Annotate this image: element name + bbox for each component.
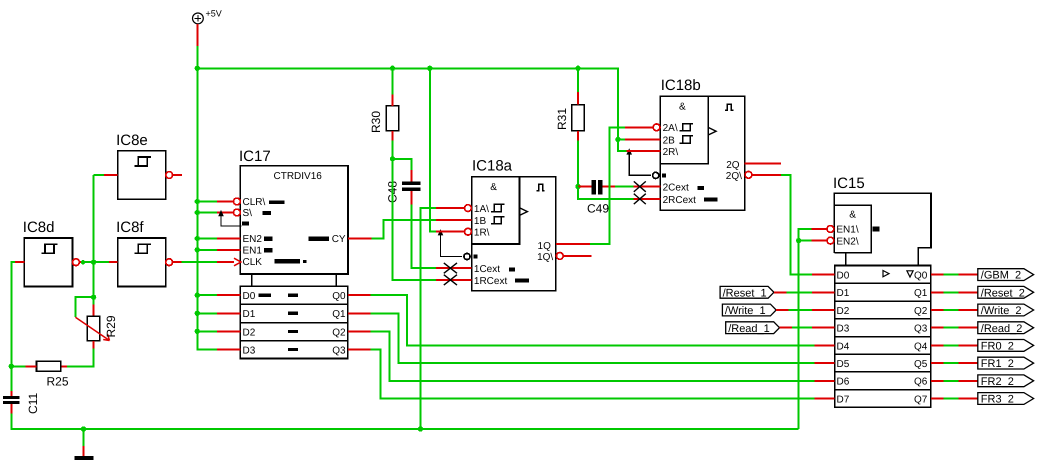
junction VCC at CLR (195, 199, 200, 204)
wire IC18b 2A pin (625, 126, 653, 128)
svg-text:D3: D3 (837, 324, 850, 335)
svg-text:Q0: Q0 (914, 271, 928, 282)
svg-text:2Cext: 2Cext (663, 183, 689, 194)
svg-text:FR0_2: FR0_2 (981, 341, 1014, 353)
svg-text:D6: D6 (837, 377, 850, 388)
svg-text:IC8f: IC8f (116, 219, 144, 236)
wire IC18b 2Q\ pin (752, 174, 781, 176)
junction VCC rail at R31 (575, 66, 580, 71)
svg-text:IC17: IC17 (239, 148, 271, 165)
op IC17 counter main box (240, 166, 348, 274)
junction IC8d output net riser (91, 260, 96, 265)
svg-text:Q6: Q6 (914, 377, 928, 388)
svg-text:Q4: Q4 (914, 341, 928, 352)
svg-text:IC15: IC15 (833, 175, 865, 192)
wire IC8f output pin (173, 261, 181, 263)
wire IC18a 1Q\ pin (open) (563, 255, 591, 257)
wire IC18a 1Cext pin (436, 267, 472, 269)
wire IC17 CY pin (348, 238, 372, 240)
junction VCC rail at R30 (390, 66, 395, 71)
svg-text:&: & (679, 102, 686, 113)
svg-text:C49: C49 (587, 202, 609, 216)
pin S pin-number bar (263, 211, 272, 215)
svg-text:Q1: Q1 (332, 309, 346, 320)
wire /Write_1 to IC15 D2 (789, 309, 812, 311)
capacitor C48 top pin (410, 170, 412, 181)
op IC18a monoflop body (472, 177, 556, 291)
svg-text:FR2_2: FR2_2 (981, 376, 1014, 388)
wire C49 right to 2Cext (615, 186, 634, 188)
svg-text:D0: D0 (243, 291, 256, 302)
wire VCC vertical from +5V down to IC17 D3 row (197, 46, 217, 350)
pin bar below S (242, 222, 249, 226)
svg-text:/GBM_2: /GBM_2 (981, 270, 1021, 282)
wire IC17 Q1 to IC15 D5 (371, 313, 815, 363)
wire IC18b 2Q\ to IC15 D0 (781, 175, 812, 275)
svg-text:FR1_2: FR1_2 (981, 358, 1014, 370)
svg-text:/Write_1: /Write_1 (725, 305, 766, 317)
pin EN1 pin-number bar (264, 248, 273, 252)
ground symbol GND (75, 456, 94, 460)
wire IC15 EN2 pin (811, 240, 827, 242)
junction ground rail at GND symbol (81, 426, 86, 431)
wire /Read_1 flag pin (780, 327, 793, 329)
wire Q4 to flag FR0_2 (944, 344, 959, 346)
wire IC18b 2Cext pin (634, 186, 661, 188)
junction R25/C11/IC8d node (9, 364, 14, 369)
svg-text:D0: D0 (837, 271, 850, 282)
svg-text:1Q\: 1Q\ (537, 252, 553, 263)
svg-text:IC18a: IC18a (472, 158, 513, 175)
no-connect X on 2RCext (634, 194, 646, 204)
pin Q0 nabla triangle (907, 271, 913, 277)
svg-text:/Read_1: /Read_1 (728, 323, 770, 335)
wire VCC top rail to IC18b then down to 2B/2R (197, 68, 626, 151)
svg-text:EN2\: EN2\ (836, 236, 858, 247)
input flag /Reset_1 (720, 286, 774, 298)
svg-text:Q0: Q0 (332, 291, 346, 302)
svg-text:Q7: Q7 (914, 394, 928, 405)
wire VCC to IC17 D3 pin (197, 349, 217, 351)
wire IC17 Q0 pin (348, 294, 371, 296)
wire IC15 Q3 pin (931, 327, 944, 329)
wire IC15 D4 pin (815, 344, 835, 346)
resistor R29 bottom pin (93, 341, 95, 349)
wire VCC to IC17 CLR pin (197, 201, 217, 203)
inverter gate IC8f (118, 238, 173, 287)
wire IC18b 2RCext pin (634, 198, 661, 200)
wire /Write_1 flag pin (776, 309, 789, 311)
wire EN2 branch (799, 240, 812, 242)
svg-text:Q5: Q5 (914, 359, 928, 370)
junction node R31/C49 (575, 184, 580, 189)
output flag /Reset_2 (978, 286, 1034, 298)
junction EN2 node (796, 238, 801, 243)
wire IC18b 2B pin (625, 138, 660, 140)
wire riser IC8e input / R29 top (93, 175, 95, 304)
svg-text:IC18b: IC18b (661, 77, 701, 94)
svg-text:1B: 1B (474, 216, 487, 227)
wire IC18a 1A pin (436, 207, 464, 209)
wire VCC drop to R31 (577, 68, 579, 92)
svg-text:D4: D4 (837, 341, 850, 352)
wire IC18a 1RCext pin (436, 279, 472, 281)
svg-text:D2: D2 (243, 327, 256, 338)
junction VCC at EN2 (195, 236, 200, 241)
gadget IC18b R-pin arrow link (629, 153, 651, 176)
wire C48 bottom down to 1Cext row (411, 205, 436, 269)
resistor R25 left pin (25, 365, 36, 367)
svg-text:EN1: EN1 (243, 246, 263, 257)
wire IC17 Q2 to IC15 D6 (371, 331, 815, 380)
output flag /GBM_2 (978, 269, 1034, 281)
pin EN2 pin-number bar (264, 237, 273, 241)
resistor R31 bottom pin (577, 131, 579, 141)
output flag /Read_2 (978, 322, 1034, 334)
wire VCC branch to IC18b 2B (618, 138, 625, 140)
svg-text:D2: D2 (837, 306, 850, 317)
wire flag FR2_2 pin (959, 380, 978, 382)
wire Q1 to flag /Reset_2 (944, 291, 959, 293)
svg-text:2Q: 2Q (726, 160, 740, 171)
svg-text:FR3_2: FR3_2 (981, 394, 1014, 406)
resistor R30 body (386, 106, 399, 131)
wire IC15 EN1 pin (811, 228, 827, 230)
gadget IC18a R-pin arrow link (441, 234, 463, 257)
wire VCC to IC17 EN2 pin (197, 238, 217, 240)
capacitor C49 plates (592, 180, 596, 194)
wire IC17 Q0 to IC15 D4 (371, 295, 815, 345)
wire VCC to IC17 S pin (197, 212, 217, 214)
input flag /Read_1 (726, 322, 780, 334)
wire IC18a 1A riser from ground rail (420, 208, 436, 429)
wire IC15 Q0 pin (931, 274, 944, 276)
svg-text:D3: D3 (243, 345, 256, 356)
wire flag FR0_2 pin (959, 344, 978, 346)
wire VCC long drop to IC18a 1R (430, 68, 436, 231)
wire IC17 Q3 pin (348, 349, 371, 351)
wire IC18b 2R pin (627, 150, 661, 152)
capacitor C48 plates (402, 181, 420, 185)
svg-text:EN1\: EN1\ (836, 225, 858, 236)
svg-text:CY: CY (332, 234, 346, 245)
wire VCC to IC17 D0 pin (197, 294, 217, 296)
wire flag /Read_2 pin (959, 327, 978, 329)
resistor R30 top pin (392, 95, 394, 106)
pin CLR pin-number bar (269, 200, 285, 204)
op IC15 latch control box (834, 193, 931, 265)
ground symbol GND pin (83, 446, 85, 456)
wire C11 bottom to ground rail (11, 414, 798, 429)
wire +5V pin stub (196, 24, 198, 46)
svg-text:1Q: 1Q (538, 241, 552, 252)
capacitor C11 plates (3, 396, 19, 399)
pin D1 bar (288, 312, 298, 315)
wire IC15 Q1 pin (931, 291, 944, 293)
resistor R29 wiper arrow (75, 317, 109, 340)
capacitor C49 left pin (578, 186, 592, 188)
wire flag /Reset_2 pin (959, 291, 978, 293)
pin CLK clock wedge (234, 258, 241, 266)
wire IC15 D7 pin (815, 398, 835, 400)
wire R30 bottom to C48/node (393, 141, 412, 171)
capacitor C49 right pin (603, 186, 615, 188)
wire IC15 Q4 pin (931, 344, 944, 346)
svg-text:/Read_2: /Read_2 (981, 323, 1023, 335)
resistor R30 bottom pin (392, 131, 394, 141)
wire Q2 to flag /Write_2 (944, 309, 959, 311)
wire /Reset_1 to IC15 D1 (786, 291, 812, 293)
wire IC8d input pin (15, 261, 24, 263)
wire IC17 Q2 pin (348, 330, 371, 332)
svg-text:1A\: 1A\ (474, 204, 489, 215)
resistor R31 top pin (577, 92, 579, 105)
wire /Read_1 to IC15 D3 (792, 327, 812, 329)
svg-text:CTRDIV16: CTRDIV16 (274, 171, 323, 182)
no-connect X on 1Cext (444, 263, 457, 273)
wire Q6 to flag FR2_2 (944, 380, 959, 382)
pin 2A bubble (653, 124, 660, 131)
wire riser top corner to IC8e (94, 174, 104, 176)
output flag /Write_2 (978, 304, 1034, 316)
wire CY to IC18a 1B (372, 220, 437, 238)
pin D2 bar (288, 330, 298, 333)
wire IC8f output to IC17 CLK (181, 261, 217, 263)
wire flag /GBM_2 pin (959, 274, 978, 276)
svg-text:C11: C11 (26, 393, 40, 414)
inverter gate IC8e (118, 151, 173, 200)
wire IC15 Q2 pin (931, 309, 944, 311)
wire IC17 Q1 pin (348, 312, 371, 314)
junction VCC at S (195, 210, 200, 215)
svg-text:Q3: Q3 (914, 324, 928, 335)
svg-text:2B: 2B (663, 135, 676, 146)
wire R29 wiper connection (75, 297, 93, 317)
svg-text:R31: R31 (555, 108, 569, 130)
wire IC8d output to IC8f input (83, 261, 109, 263)
pin EN1 pin-number bar (873, 227, 880, 232)
op IC17 DQ box (240, 286, 347, 358)
svg-text:Q1: Q1 (914, 288, 928, 299)
input flag /Write_1 (722, 304, 776, 316)
wire IC15 Q5 pin (931, 362, 944, 364)
svg-text:IC8d: IC8d (23, 219, 55, 236)
output flag FR3_2 (978, 393, 1034, 405)
svg-text:2RCext: 2RCext (663, 195, 697, 206)
wire flag FR1_2 pin (959, 362, 978, 364)
svg-text:S\: S\ (243, 208, 253, 219)
svg-text:Q2: Q2 (332, 327, 346, 338)
wire IC8e input pin (104, 174, 118, 176)
junction ground rail at 1A riser (418, 426, 423, 431)
svg-text:Q2: Q2 (914, 306, 928, 317)
wire R25 left node (11, 365, 25, 367)
resistor R25 right pin (61, 365, 67, 367)
wire VCC to IC17 D1 pin (197, 312, 217, 314)
svg-text:&: & (849, 209, 856, 220)
wire ground rail riser to EN1/EN2 (799, 229, 812, 429)
junction node R30/C48 (390, 156, 395, 161)
svg-text:2Q\: 2Q\ (726, 171, 742, 182)
wire Q5 to flag FR1_2 (944, 362, 959, 364)
svg-text:2A\: 2A\ (663, 123, 678, 134)
pin EN1 bubble (827, 226, 834, 233)
pin D3 bar (288, 348, 298, 351)
svg-text:D5: D5 (837, 359, 850, 370)
svg-text:R30: R30 (369, 111, 383, 133)
wire IC15 D0 pin (812, 274, 835, 276)
resistor R29 top pin (93, 304, 95, 316)
svg-text:1RCext: 1RCext (474, 276, 508, 287)
junction IC8d output net stub end (81, 260, 85, 264)
wire R31 bottom to C49 node (577, 141, 579, 187)
svg-text:Q3: Q3 (332, 345, 346, 356)
wire VCC to IC17 D2 pin (197, 330, 217, 332)
svg-text:IC8e: IC8e (116, 132, 148, 149)
output flag FR1_2 (978, 357, 1034, 369)
wire /Reset_1 flag pin (774, 291, 787, 293)
wire IC8f input pin (109, 261, 118, 263)
wire IC8d output pin (79, 261, 83, 263)
junction VCC at EN1 (195, 247, 200, 252)
svg-text:D1: D1 (837, 288, 850, 299)
wire IC18a 1R pin (436, 231, 464, 233)
pin 1A bubble (465, 205, 472, 212)
wire flag FR3_2 pin (959, 398, 978, 400)
output flag FR0_2 (978, 340, 1034, 352)
junction R29 wiper node (91, 295, 96, 300)
wire R29 bottom to R25 (67, 348, 94, 366)
pin EN2 bubble (827, 237, 834, 244)
junction VCC rail at x430 (427, 66, 432, 71)
junction VCC rail at x197 (195, 66, 200, 71)
op IC18b monoflop body (660, 96, 744, 210)
capacitor C48 bottom pin (410, 191, 412, 204)
wire node down to 2RCext row (578, 187, 634, 199)
svg-text:&: & (490, 182, 497, 193)
gadget IC17 S-pin arrow link (221, 214, 242, 227)
wire VCC to IC17 EN1 pin (197, 249, 217, 251)
svg-text:2R\: 2R\ (663, 147, 679, 158)
op IC15 DQ box (835, 266, 931, 408)
no-connect X on 1RCext (444, 275, 457, 285)
junction VCC at 2B (615, 137, 620, 142)
pin CY pin-number bar (308, 237, 329, 241)
wire node down to 1RCext row (393, 159, 437, 280)
svg-text:+5V: +5V (206, 9, 222, 19)
output flag FR2_2 (978, 375, 1034, 387)
svg-text:R25: R25 (47, 375, 69, 389)
svg-text:CLR\: CLR\ (243, 197, 266, 208)
wire Q7 to flag FR3_2 (944, 398, 959, 400)
svg-text:1R\: 1R\ (474, 228, 490, 239)
wire flag /Write_2 pin (959, 309, 978, 311)
wire IC15 D5 pin (815, 362, 835, 364)
svg-text:D1: D1 (243, 309, 256, 320)
capacitor C11 bottom pin (10, 404, 12, 414)
wire Q0 to flag /GBM_2 (944, 274, 959, 276)
wire IC17 Q3 to IC15 D7 (371, 350, 815, 399)
svg-text:/Reset_2: /Reset_2 (981, 287, 1025, 299)
pin 1R bubble (465, 228, 472, 235)
no-connect X on 2Cext (634, 181, 646, 191)
wire IC18b 2Q pin (open) (745, 162, 781, 164)
wire IC18a 1B pin (436, 219, 472, 221)
pin D0 clock triangle (883, 271, 889, 277)
svg-text:CLK: CLK (243, 257, 263, 268)
resistor R31 body (572, 105, 585, 131)
wire node down to C11 (10, 366, 12, 391)
power +5V supply symbol P1 (193, 9, 222, 24)
wire IC8e output pin (open) (173, 174, 182, 176)
wire IC15 Q7 pin (931, 398, 944, 400)
wire Q3 to flag /Read_2 (944, 327, 959, 329)
inverter gate IC8d (24, 238, 79, 287)
svg-text:R29: R29 (104, 315, 118, 337)
wire VCC drop to R30 (392, 68, 394, 94)
svg-text:/Reset_1: /Reset_1 (723, 287, 767, 299)
resistor R29 body (trimmer) (87, 316, 100, 341)
wire IC18a 1Q pin (556, 243, 590, 245)
svg-text:/Write_2: /Write_2 (981, 305, 1022, 317)
op IC17 legs to DQ box (252, 274, 337, 286)
svg-text:EN2: EN2 (243, 234, 263, 245)
wire node up to IC8d input (11, 262, 15, 366)
wire IC15 Q6 pin (931, 380, 944, 382)
svg-text:D7: D7 (837, 394, 850, 405)
capacitor C11 top pin (10, 391, 12, 396)
wire GND symbol stub green (83, 429, 85, 446)
pin D0 bars (258, 294, 271, 297)
wire IC15 D6 pin (815, 380, 835, 382)
resistor R25 body (37, 361, 61, 371)
wire IC18a 1Q to IC18b 2A (590, 127, 625, 244)
svg-text:1Cext: 1Cext (474, 264, 500, 275)
pin CLK pin-number bars (274, 259, 300, 263)
